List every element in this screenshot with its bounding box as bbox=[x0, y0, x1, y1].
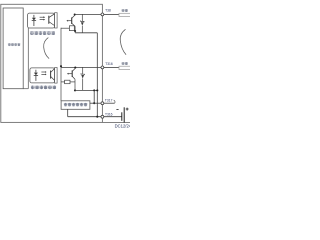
svg-text:T38: T38 bbox=[105, 9, 111, 13]
svg-text:T316: T316 bbox=[105, 62, 113, 66]
svg-text:T317: T317 bbox=[105, 99, 113, 103]
svg-text:T316: T316 bbox=[105, 112, 113, 116]
svg-text:DC12/24V: DC12/24V bbox=[115, 124, 130, 129]
